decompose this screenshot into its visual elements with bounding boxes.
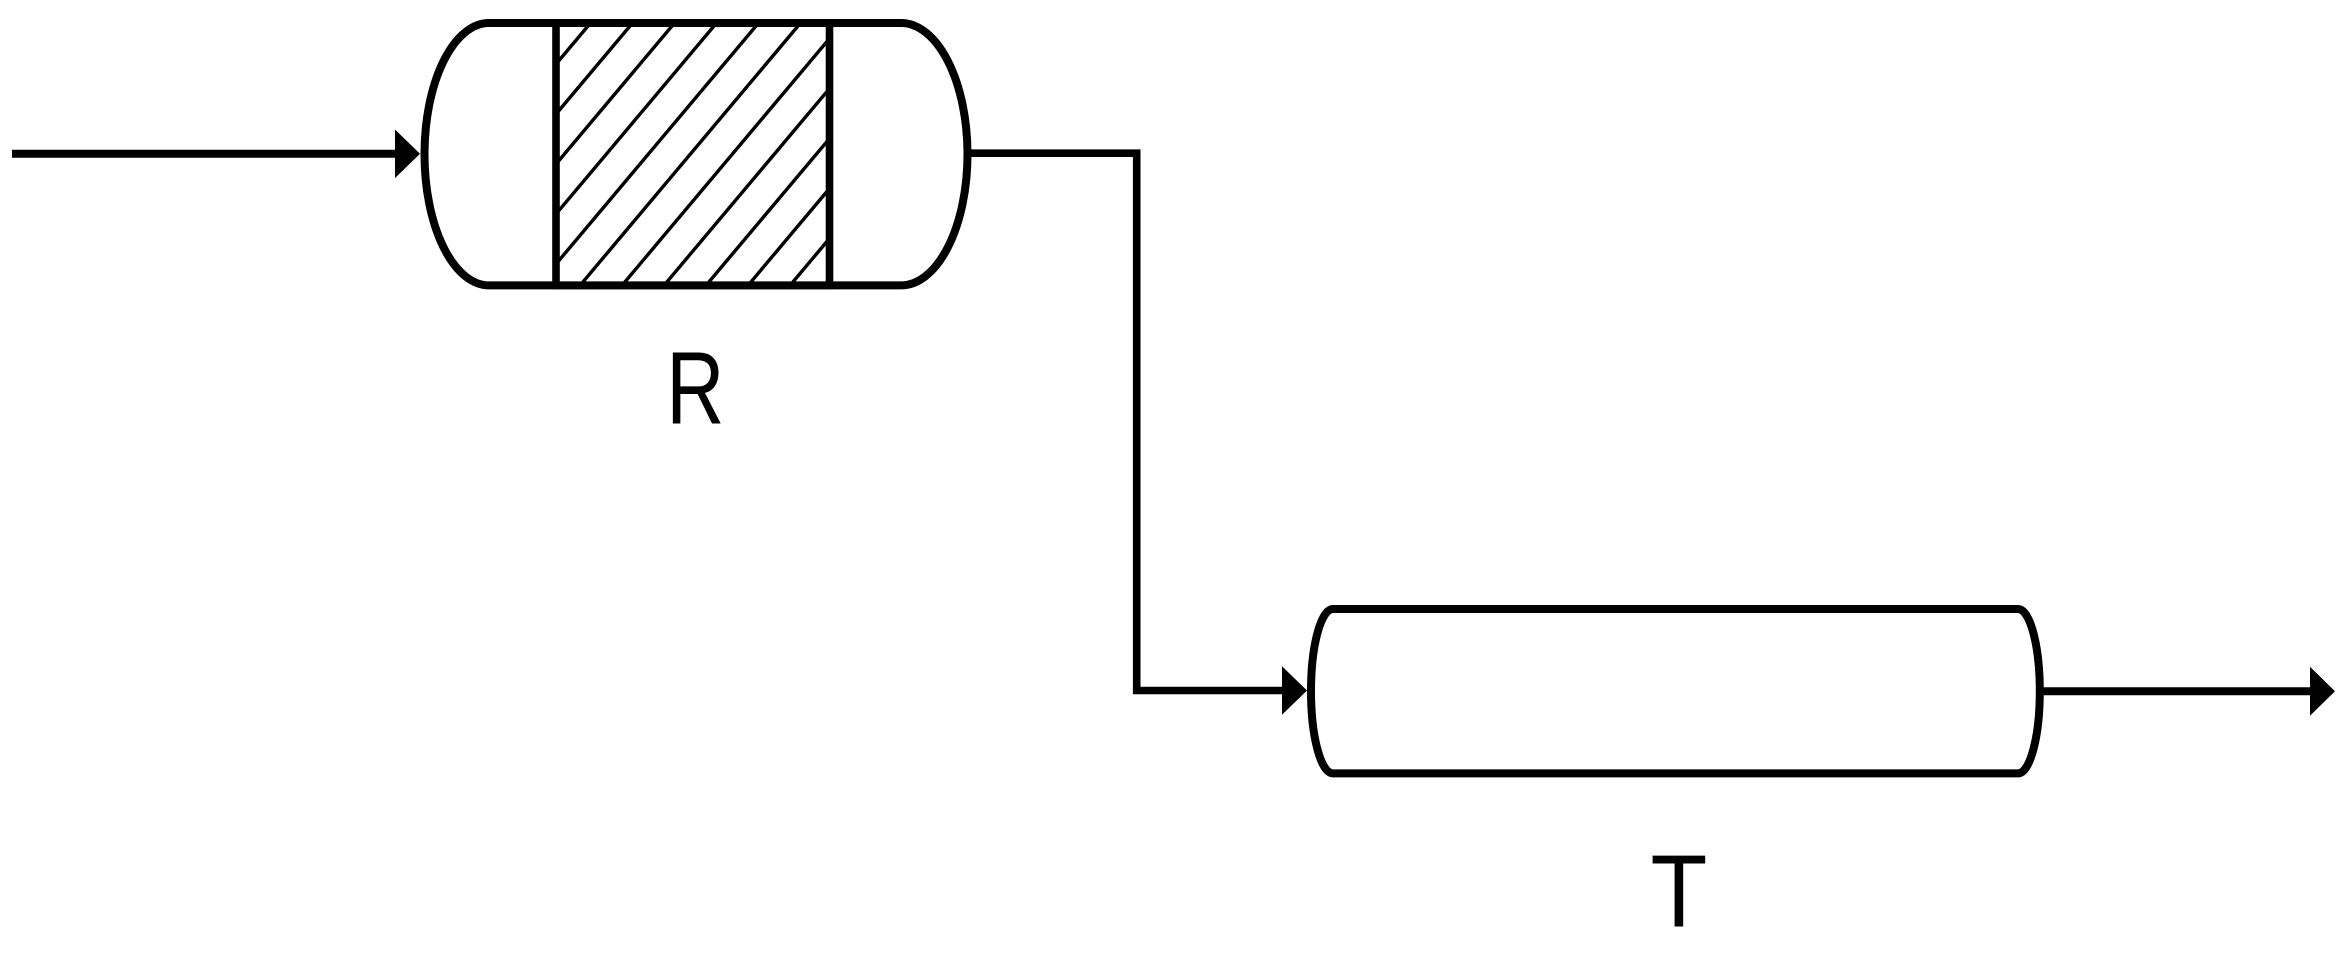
vessel R (reactor capsule) [425,23,968,285]
arrowhead feed into R [395,130,420,179]
vessel T (horizontal tank capsule) [1311,609,2040,773]
arrowhead into T [1282,666,1307,714]
arrowhead outlet [2310,667,2335,716]
wire feed stream into R [12,150,397,158]
catalyst bed hatched rect in R [369,23,1053,287]
svg-text:R: R [666,330,724,446]
svg-text:T: T [1651,833,1708,949]
wire T outlet stream [2041,687,2312,695]
wire R outlet to T (elbow) [966,153,1285,690]
catalyst bed border [556,23,830,285]
